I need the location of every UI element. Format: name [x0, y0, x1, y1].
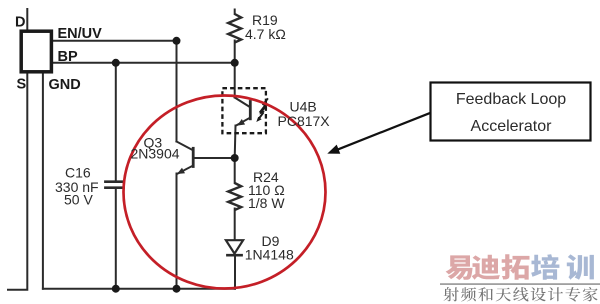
svg-text:EN/UV: EN/UV	[58, 26, 103, 42]
svg-text:GND: GND	[49, 77, 81, 93]
svg-text:S: S	[17, 77, 27, 93]
svg-text:4.7 kΩ: 4.7 kΩ	[245, 26, 286, 42]
svg-text:D: D	[15, 14, 25, 30]
svg-text:BP: BP	[58, 49, 78, 65]
svg-text:PC817X: PC817X	[278, 113, 331, 129]
svg-text:Accelerator: Accelerator	[471, 118, 553, 135]
svg-text:50 V: 50 V	[64, 192, 93, 208]
svg-text:2N3904: 2N3904	[131, 146, 180, 162]
svg-text:1N4148: 1N4148	[245, 247, 294, 263]
svg-text:Feedback Loop: Feedback Loop	[456, 91, 566, 108]
svg-text:1/8 W: 1/8 W	[248, 195, 285, 211]
